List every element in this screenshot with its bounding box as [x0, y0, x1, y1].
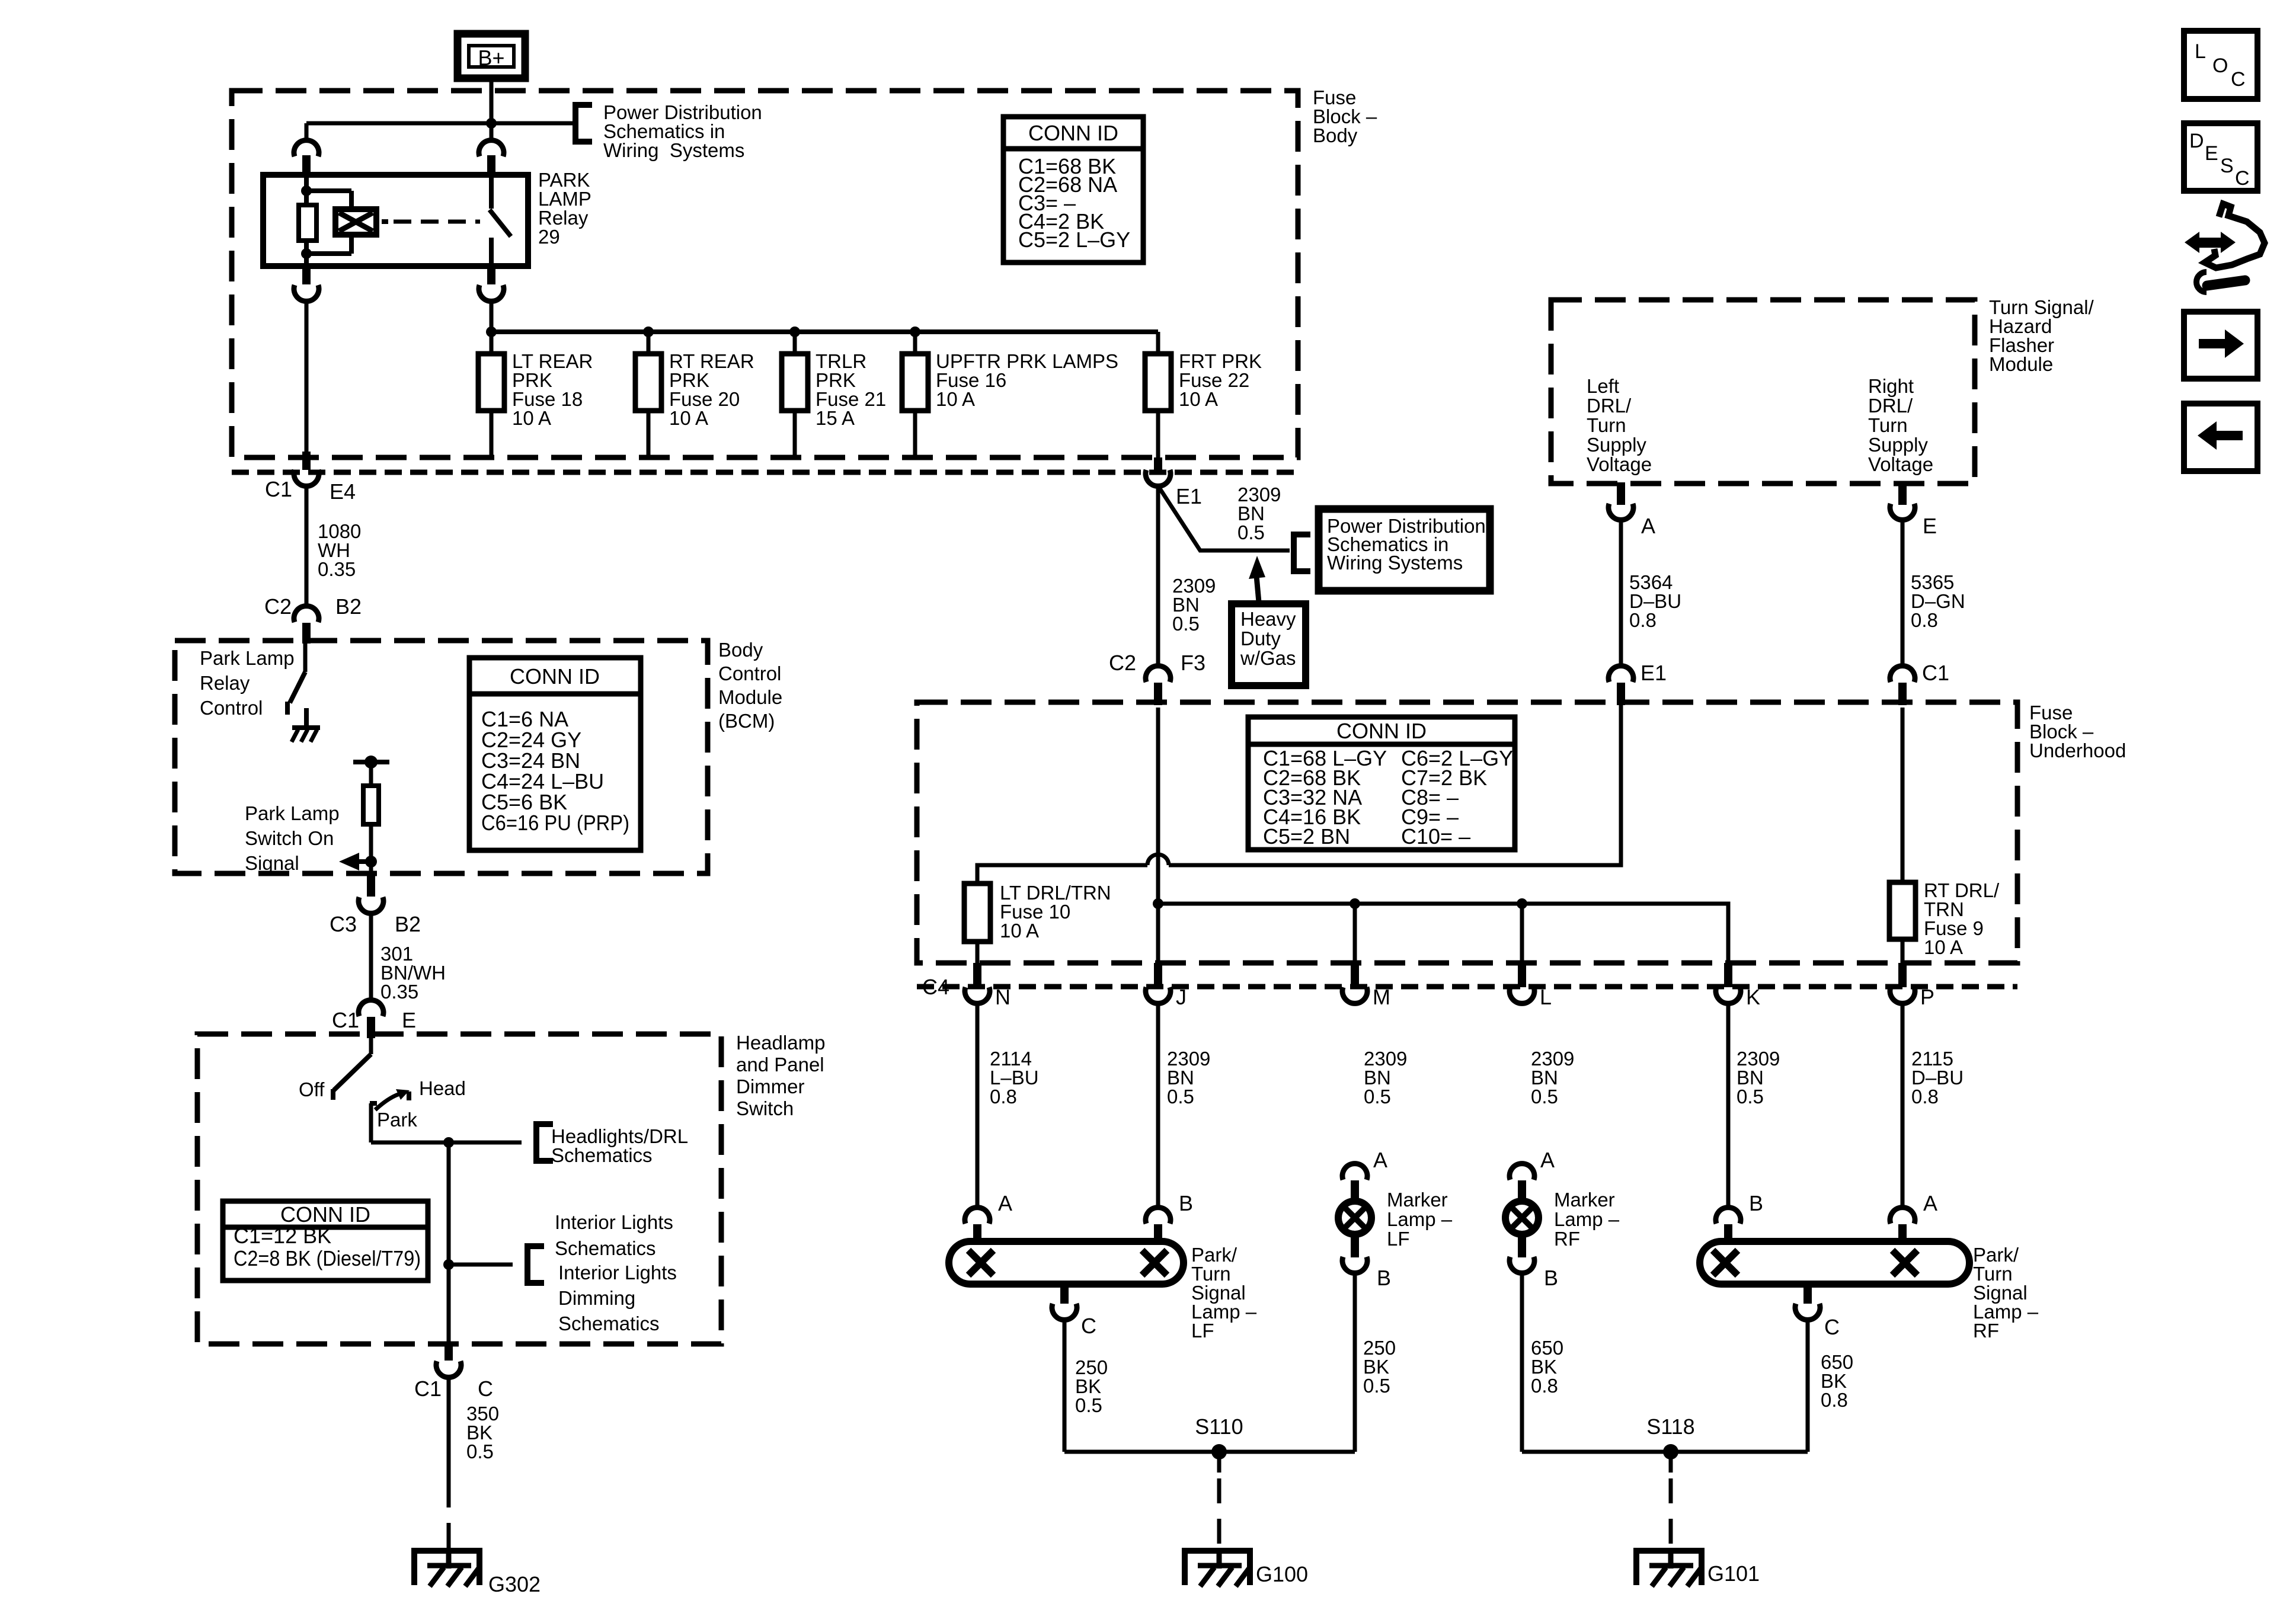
bracket ref Power Distribution (mid): [1294, 534, 1310, 571]
svg-text:P: P: [1920, 985, 1934, 1009]
svg-text:LF: LF: [1191, 1320, 1214, 1342]
svg-text:B: B: [1749, 1191, 1763, 1215]
svg-text:S110: S110: [1195, 1414, 1243, 1439]
svg-text:Switch: Switch: [736, 1097, 794, 1119]
svg-text:Wiring Systems: Wiring Systems: [1327, 552, 1463, 574]
pin C1/C: [445, 1344, 453, 1361]
node bus L: [1517, 898, 1527, 909]
svg-text:E: E: [1923, 514, 1937, 538]
wire dashed to G302: [447, 1483, 451, 1548]
pin L: [1518, 963, 1526, 987]
svg-text:0.35: 0.35: [380, 981, 418, 1003]
svg-text:RF: RF: [1554, 1228, 1580, 1250]
connector relay pin top-right (cup): [479, 140, 504, 156]
icon double arrow: [2185, 232, 2199, 253]
svg-text:E4: E4: [330, 479, 356, 504]
svg-text:Control: Control: [718, 662, 781, 684]
wire P to RF lamp A: [1901, 1006, 1905, 1206]
connector relay pin top-left (cup): [294, 140, 319, 156]
svg-text:Module: Module: [718, 686, 782, 708]
svg-text:Signal: Signal: [245, 852, 299, 874]
pin P: [1898, 963, 1907, 987]
svg-text:Left: Left: [1587, 375, 1619, 397]
svg-text:O: O: [2212, 55, 2228, 77]
svg-text:A: A: [1923, 1191, 1937, 1215]
wire B+ down to junction: [490, 78, 494, 140]
svg-text:B: B: [1377, 1266, 1391, 1290]
svg-text:Body: Body: [1313, 124, 1358, 146]
pin relay top-right: [487, 155, 495, 175]
svg-text:D: D: [2189, 130, 2204, 152]
svg-text:C3: C3: [330, 912, 357, 936]
dotted connector line body bottom: [232, 470, 1298, 475]
svg-text:Supply: Supply: [1868, 434, 1928, 456]
node bus fuse16: [910, 327, 920, 337]
pin M: [1351, 963, 1359, 987]
connector J (cup): [1146, 987, 1171, 1003]
wire down to C1/C: [447, 1142, 451, 1344]
svg-text:and Panel: and Panel: [736, 1054, 824, 1076]
svg-text:CONN ID: CONN ID: [1028, 121, 1118, 145]
BCM dashed box: [175, 641, 708, 873]
svg-text:E: E: [402, 1008, 416, 1032]
mech dashed link coil to switch: [394, 220, 480, 224]
svg-text:10 A: 10 A: [512, 407, 551, 429]
relay PARK LAMP Relay 29 box: [263, 175, 528, 266]
stub coil to mech link: [382, 219, 388, 224]
wire junction to relay left / bracket: [306, 121, 575, 126]
pin RF B: [1724, 1224, 1732, 1242]
icon wrench: [2196, 272, 2207, 292]
wire relay to C1/E4: [305, 303, 309, 452]
svg-text:Off: Off: [299, 1078, 325, 1100]
ground G302: [414, 1551, 479, 1585]
pin LF B: [1154, 1224, 1162, 1242]
icon car/service glyph: [2205, 204, 2265, 268]
pin E1 underhood: [1617, 683, 1625, 705]
BCM relay-control switch: [303, 644, 308, 672]
connector C1/C (cup): [436, 1361, 461, 1377]
pin LF C: [1060, 1284, 1069, 1304]
splice S118: [1522, 1450, 1808, 1454]
svg-text:0.8: 0.8: [1911, 609, 1938, 631]
wire E1 branch to power distribution: [1158, 486, 1290, 550]
svg-text:C1: C1: [414, 1377, 442, 1401]
svg-text:Dimmer: Dimmer: [736, 1076, 804, 1097]
wire fuse9 to P: [1901, 939, 1905, 963]
arrow Heavy Duty to wire: [1256, 576, 1259, 602]
svg-text:C1: C1: [332, 1008, 359, 1032]
ground G100: [1185, 1551, 1250, 1585]
wire LF C down: [1063, 1322, 1067, 1452]
svg-text:M: M: [1373, 985, 1390, 1009]
wire K to RF lamp B: [1726, 1006, 1731, 1206]
svg-text:CONN ID: CONN ID: [280, 1202, 370, 1227]
wire C1/C down: [447, 1379, 451, 1483]
wire to interior bracket: [449, 1263, 513, 1267]
connector C3/B2 (cup): [359, 897, 383, 913]
svg-text:0.5: 0.5: [1167, 1086, 1194, 1108]
svg-text:C5=2 BN: C5=2 BN: [1263, 824, 1350, 849]
fuse Fuse 20: [635, 354, 661, 411]
bracket ref Power Distribution (top): [575, 105, 592, 142]
wire dashed to G101: [1669, 1478, 1673, 1548]
wire hop (no connection): [1147, 854, 1169, 865]
wire coil loop bottom right: [349, 235, 354, 254]
contact Off: [331, 1089, 335, 1100]
wire Park contact down: [369, 1103, 373, 1142]
node bus J: [1153, 898, 1163, 909]
connector P (cup): [1890, 987, 1915, 1003]
fuse Fuse 22: [1145, 354, 1171, 411]
svg-text:0.35: 0.35: [318, 558, 356, 580]
pin E1: [1154, 457, 1162, 470]
wire module A down: [1619, 522, 1623, 664]
park lamp switch-on signal sense: [353, 760, 389, 764]
relay coil circuit: [304, 175, 309, 205]
relay switch blade: [490, 210, 511, 236]
fuse RT DRL/TRN Fuse 9: [1889, 882, 1916, 939]
svg-text:C4: C4: [922, 975, 949, 999]
svg-text:Supply: Supply: [1587, 434, 1646, 456]
svg-text:L: L: [2195, 40, 2206, 63]
connector C2/F3 (cup): [1146, 666, 1171, 682]
connector LF lamp C (cup): [1052, 1304, 1077, 1320]
fuse Fuse 21: [782, 354, 808, 411]
node bus fuse20: [643, 327, 654, 337]
svg-text:Relay: Relay: [200, 672, 250, 694]
svg-text:A: A: [998, 1191, 1012, 1215]
svg-text:A: A: [1641, 514, 1655, 538]
svg-text:A: A: [1373, 1148, 1387, 1172]
wire C1/E4 to C2/B2: [305, 488, 309, 606]
wire relay to fuse bus: [490, 303, 494, 332]
svg-text:10 A: 10 A: [1924, 936, 1963, 958]
node S118: [1663, 1444, 1678, 1459]
wire module E down: [1901, 522, 1905, 664]
node S110: [1211, 1444, 1227, 1459]
svg-text:B: B: [1179, 1191, 1193, 1215]
filament X right (RF): [1892, 1250, 1917, 1275]
svg-text:C6=16 PU (PRP): C6=16 PU (PRP): [481, 811, 629, 835]
wire coil loop top: [306, 188, 351, 193]
svg-text:0.8: 0.8: [990, 1086, 1017, 1108]
bulb pill LF: [949, 1241, 1184, 1284]
svg-text:15 A: 15 A: [816, 407, 855, 429]
headlamp and panel dimmer switch dashed box: [197, 1034, 721, 1344]
svg-text:Lamp –: Lamp –: [1387, 1208, 1453, 1230]
node bus M: [1350, 898, 1360, 909]
svg-text:0.8: 0.8: [1821, 1389, 1848, 1411]
svg-text:K: K: [1746, 985, 1760, 1009]
svg-text:E1: E1: [1641, 661, 1667, 685]
pin relay bottom-left: [302, 266, 311, 284]
wire down to relay left connector: [305, 123, 309, 140]
resistor relay coil resistor: [299, 205, 316, 241]
node coil bottom: [301, 248, 312, 259]
svg-text:Voltage: Voltage: [1587, 453, 1652, 475]
wire L down: [1520, 904, 1524, 963]
svg-text:J: J: [1176, 985, 1187, 1009]
ground G101: [1636, 1551, 1702, 1585]
svg-text:B+: B+: [478, 46, 504, 70]
fuse Fuse 18: [478, 354, 504, 411]
connector module A (cup): [1609, 504, 1633, 520]
svg-text:Turn: Turn: [1587, 414, 1626, 436]
svg-text:Duty: Duty: [1240, 628, 1281, 649]
table CONN ID (Fuse Block Underhood): [1248, 717, 1515, 850]
pin C1/E4: [302, 452, 311, 470]
svg-text:0.5: 0.5: [1075, 1394, 1102, 1416]
svg-text:S: S: [2220, 155, 2234, 177]
filament X right (LF): [1142, 1250, 1167, 1275]
wire coil loop bottom: [306, 251, 351, 256]
table CONN ID (dimmer switch): [223, 1201, 428, 1281]
connector RF lamp B (cup): [1716, 1208, 1741, 1224]
bracket ref Headlights/DRL Schematics: [536, 1124, 553, 1161]
Heavy Duty w/Gas callout box: [1232, 604, 1306, 686]
filament X left (RF): [1713, 1250, 1738, 1275]
coil relay winding box: [335, 209, 376, 235]
wire M down: [1353, 904, 1357, 963]
arrow Park to Head: [375, 1093, 402, 1110]
connector K (cup): [1716, 987, 1741, 1003]
svg-text:Schematics: Schematics: [551, 1144, 653, 1166]
svg-text:C5=2 L–GY: C5=2 L–GY: [1018, 228, 1130, 252]
svg-text:Head: Head: [419, 1077, 466, 1099]
svg-text:C: C: [2231, 68, 2246, 91]
svg-text:Interior Lights: Interior Lights: [558, 1262, 677, 1283]
svg-text:29: 29: [538, 226, 560, 248]
connector relay pin bottom-right (cup): [479, 285, 504, 301]
svg-text:C: C: [1824, 1315, 1840, 1339]
filament X left (LF): [968, 1250, 993, 1275]
node B+ junction: [486, 118, 497, 129]
table CONN ID (BCM): [469, 658, 641, 850]
fuse block - underhood dashed box: [917, 702, 2017, 963]
svg-text:Wiring Systems: Wiring Systems: [603, 139, 744, 161]
resistor sense divider: [363, 786, 379, 824]
connector LF lamp A (cup): [965, 1208, 990, 1224]
chassis ground (BCM internal): [304, 708, 309, 728]
icon LOC box: [2184, 31, 2257, 99]
svg-text:B2: B2: [335, 594, 362, 619]
wire module-A to fuse 10 with hop over J: [977, 702, 1621, 884]
connector E1 underhood (cup): [1609, 666, 1633, 682]
svg-text:10 A: 10 A: [936, 388, 975, 410]
bracket ref Interior Lights Schematics: [527, 1246, 544, 1283]
connector C2/B2 (cup): [294, 606, 319, 622]
svg-text:0.5: 0.5: [1237, 521, 1265, 543]
svg-text:C1: C1: [1922, 661, 1949, 685]
node sense arrow junction: [365, 856, 377, 868]
svg-text:C1: C1: [265, 477, 292, 501]
svg-text:N: N: [995, 985, 1011, 1009]
svg-text:10 A: 10 A: [669, 407, 708, 429]
svg-text:0.5: 0.5: [1172, 613, 1200, 635]
svg-text:0.8: 0.8: [1531, 1375, 1558, 1397]
wire to headlights bracket: [449, 1141, 522, 1145]
pin K: [1724, 963, 1732, 987]
contact Park: [370, 1101, 377, 1106]
pin relay top-left: [302, 155, 311, 175]
bus underhood to K: [1158, 904, 1728, 963]
fuse block - body dashed box: [232, 91, 1298, 457]
connector module E (cup): [1890, 504, 1915, 520]
connector C1 underhood (cup): [1890, 666, 1915, 682]
svg-text:C2: C2: [1109, 651, 1136, 675]
pin N: [973, 963, 981, 987]
fuse Fuse 16: [902, 354, 928, 411]
svg-text:E1: E1: [1176, 484, 1202, 508]
connector RF lamp A (cup): [1890, 1208, 1915, 1224]
svg-text:E: E: [2205, 142, 2218, 165]
svg-text:Body: Body: [718, 639, 763, 661]
wire RF C down: [1806, 1322, 1810, 1452]
pin C2/F3: [1154, 683, 1162, 705]
pin module A: [1617, 482, 1625, 505]
wire Park to junction: [371, 1141, 449, 1145]
switch blade (relay control): [290, 672, 305, 703]
svg-text:0.5: 0.5: [1364, 1086, 1391, 1108]
svg-text:0.5: 0.5: [1531, 1086, 1558, 1108]
svg-text:Dimming: Dimming: [558, 1287, 635, 1309]
node bus fuse18: [486, 327, 497, 337]
connector C1/E (cup): [359, 1000, 383, 1016]
connector L (cup): [1510, 987, 1534, 1003]
svg-text:Park Lamp: Park Lamp: [245, 802, 340, 824]
dotted connector line underhood bottom: [917, 984, 2017, 990]
svg-text:CONN ID: CONN ID: [1336, 719, 1427, 743]
svg-text:C1=12 BK: C1=12 BK: [234, 1224, 331, 1248]
svg-text:Heavy: Heavy: [1240, 608, 1296, 630]
dimmer switch blade: [334, 1054, 371, 1090]
contact Head: [407, 1092, 411, 1100]
svg-text:Control: Control: [200, 697, 263, 719]
svg-text:Right: Right: [1868, 375, 1914, 397]
svg-text:G101: G101: [1707, 1561, 1760, 1586]
wire to dimmer switch common: [369, 1038, 373, 1054]
pin RF A: [1898, 1224, 1907, 1242]
node interior lights branch: [443, 1259, 454, 1270]
svg-text:Voltage: Voltage: [1868, 453, 1933, 475]
svg-text:0.5: 0.5: [1737, 1086, 1764, 1108]
svg-text:C2=8 BK (Diesel/T79): C2=8 BK (Diesel/T79): [234, 1246, 421, 1270]
svg-text:F3: F3: [1181, 651, 1205, 675]
pin J: [1154, 963, 1162, 987]
connector LF lamp B (cup): [1146, 1208, 1171, 1224]
svg-text:CONN ID: CONN ID: [510, 664, 600, 689]
svg-text:Park: Park: [377, 1109, 417, 1131]
svg-text:C2: C2: [264, 594, 292, 619]
svg-text:Underhood: Underhood: [2029, 740, 2126, 761]
svg-text:Headlamp: Headlamp: [736, 1032, 825, 1054]
svg-text:C: C: [2235, 167, 2250, 190]
svg-text:10 A: 10 A: [1000, 920, 1039, 942]
connector C1/E4 (cup): [294, 470, 319, 486]
svg-text:C10= –: C10= –: [1401, 824, 1470, 849]
svg-text:G302: G302: [488, 1572, 541, 1596]
wire C1 to fuse 9: [1901, 708, 1905, 882]
svg-text:G100: G100: [1256, 1562, 1308, 1586]
svg-text:0.5: 0.5: [1363, 1375, 1390, 1397]
pin RF C: [1803, 1284, 1812, 1304]
svg-text:DRL/: DRL/: [1587, 395, 1632, 417]
svg-text:10 A: 10 A: [1179, 388, 1218, 410]
svg-text:B2: B2: [395, 912, 421, 936]
wire J through underhood: [1156, 708, 1160, 963]
marker lamp LF assembly: [1342, 1164, 1367, 1180]
svg-text:L: L: [1540, 985, 1552, 1009]
svg-text:Module: Module: [1989, 353, 2053, 375]
relay switch contact: [489, 175, 494, 209]
svg-text:Marker: Marker: [1387, 1189, 1448, 1211]
pin C3/B2: [367, 873, 375, 897]
connector E1 (cup): [1146, 470, 1171, 486]
svg-text:C: C: [1081, 1314, 1096, 1338]
svg-text:B: B: [1544, 1266, 1558, 1290]
connector relay pin bottom-left (cup): [294, 285, 319, 301]
pin C2/B2: [302, 623, 311, 644]
svg-text:0.8: 0.8: [1911, 1086, 1939, 1108]
node bus fuse21: [789, 327, 800, 337]
svg-text:Interior Lights: Interior Lights: [555, 1211, 673, 1233]
marker lamp RF assembly: [1510, 1164, 1534, 1180]
svg-text:DRL/: DRL/: [1868, 395, 1913, 417]
svg-text:(BCM): (BCM): [718, 710, 775, 732]
svg-text:0.5: 0.5: [466, 1441, 494, 1462]
icon right-arrow box: [2184, 312, 2257, 379]
wire E1 to C2/F3: [1156, 486, 1160, 664]
svg-text:A: A: [1540, 1148, 1555, 1172]
svg-text:0.8: 0.8: [1629, 609, 1657, 631]
node sense top: [364, 756, 378, 769]
wire J to LF lamp B: [1156, 1006, 1160, 1206]
box Power Distribution Schematics in Wiring Systems: [1319, 509, 1490, 591]
battery feed B+ box: [458, 34, 525, 78]
svg-text:Park Lamp: Park Lamp: [200, 647, 295, 669]
svg-text:Schematics: Schematics: [555, 1237, 656, 1259]
connector RF lamp C (cup): [1795, 1304, 1820, 1320]
svg-text:Schematics: Schematics: [558, 1313, 660, 1334]
turn signal hazard flasher module dashed box: [1551, 300, 1975, 484]
pin relay bottom-right: [487, 266, 495, 284]
icon left-arrow box: [2184, 404, 2257, 471]
pin C1 underhood: [1898, 683, 1907, 705]
svg-text:Switch On: Switch On: [245, 827, 334, 849]
svg-text:C: C: [478, 1377, 493, 1401]
wire C3/B2 to C1/E: [369, 916, 373, 1003]
svg-text:RF: RF: [1973, 1320, 1999, 1342]
fuse LT DRL/TRN Fuse 10: [964, 884, 990, 942]
splice S110: [1064, 1450, 1355, 1454]
svg-text:Turn: Turn: [1868, 414, 1908, 436]
wire dashed to G100: [1217, 1478, 1221, 1548]
svg-text:Marker: Marker: [1554, 1189, 1615, 1211]
connector N (cup): [965, 987, 990, 1003]
svg-text:S118: S118: [1646, 1414, 1694, 1439]
fuse bus (body): [491, 329, 1158, 334]
pin C1/E: [367, 1017, 375, 1038]
icon DESC box: [2184, 123, 2257, 191]
svg-text:LF: LF: [1387, 1228, 1410, 1250]
pin LF A: [973, 1224, 981, 1242]
wire N to LF lamp A: [976, 1006, 980, 1206]
node headlights branch: [443, 1137, 454, 1148]
table CONN ID (Fuse Block Body): [1003, 117, 1143, 263]
svg-text:Lamp –: Lamp –: [1554, 1208, 1620, 1230]
node coil top: [301, 185, 312, 196]
